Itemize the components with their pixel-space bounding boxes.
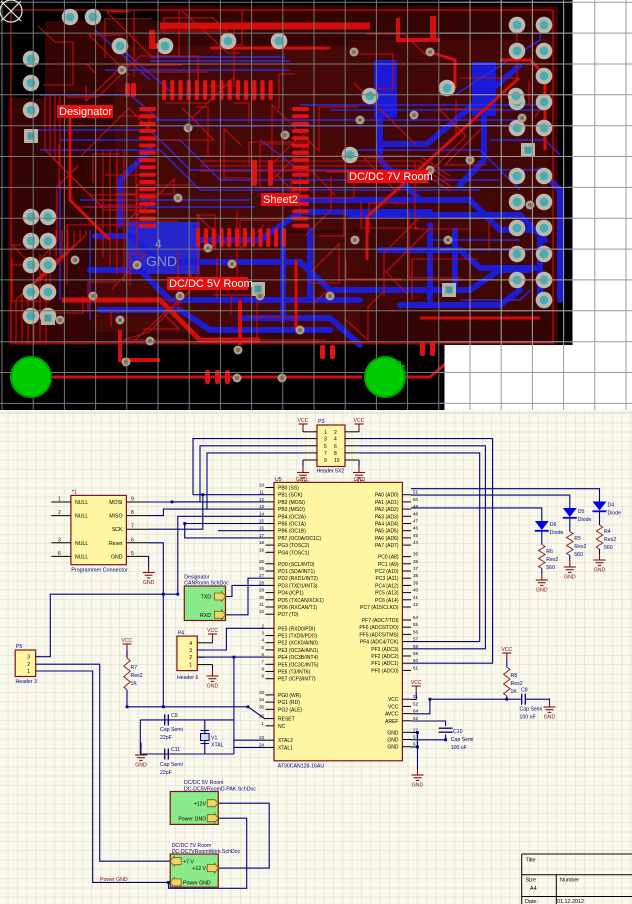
svg-text:Date:: Date: [525,899,538,904]
svg-text:PF7 (ADC7/TDI): PF7 (ADC7/TDI) [362,618,399,624]
svg-text:39: 39 [413,580,418,585]
svg-text:1K: 1K [511,689,518,695]
svg-text:49: 49 [413,504,418,509]
square pads [24,129,535,325]
svg-text:35: 35 [259,704,264,709]
wire net XTAL2 to pin [234,739,266,741]
wire net AREF to C10 [411,721,446,726]
svg-text:PB2 (MOSI): PB2 (MOSI) [278,500,305,506]
room region bottom-right [360,228,548,312]
svg-text:3: 3 [324,437,327,443]
ground [353,467,365,478]
wire net SCK header join [193,494,203,496]
svg-text:6: 6 [131,537,134,543]
room region top-left [115,46,353,230]
wire net GND63 [411,746,418,748]
svg-text:DC/DC 5V Room: DC/DC 5V Room [169,278,253,290]
svg-text:U5: U5 [275,477,282,483]
svg-text:PF3 (ADC3): PF3 (ADC3) [371,647,399,653]
resistor R5 [567,532,573,556]
svg-text:PD6 (RXCAN/T1): PD6 (RXCAN/T1) [278,605,318,611]
svg-text:NC: NC [278,724,286,730]
svg-text:XTAL1: XTAL1 [278,745,293,751]
svg-text:8: 8 [262,667,265,672]
junction dots [162,593,165,596]
svg-text:XTAL: XTAL [211,743,224,749]
footprint pads cluster small [205,370,210,384]
svg-text:PD4 (ICP1): PD4 (ICP1) [278,591,304,597]
ground [135,749,147,760]
svg-text:1: 1 [324,430,327,436]
svg-text:GND: GND [135,763,147,769]
svg-text:Power GND: Power GND [178,816,206,822]
svg-text:3: 3 [189,648,192,654]
svg-text:1: 1 [189,663,192,669]
svg-text:GND: GND [354,477,366,483]
footprint QFP2 pad column [292,107,309,111]
svg-text:AT90CAN128-16AU: AT90CAN128-16AU [278,763,325,769]
pcb board copper area [8,6,558,345]
svg-text:Cap Semi: Cap Semi [520,707,543,713]
svg-text:MOSI: MOSI [109,500,122,506]
wire net PowerGND from header3 [38,671,171,882]
pcb label Designator [57,105,113,118]
svg-text:Header 5X2: Header 5X2 [317,469,345,475]
svg-text:11: 11 [259,490,264,495]
svg-text:C8: C8 [521,688,528,694]
svg-text:RESET: RESET [278,717,295,723]
svg-text:Programmer Connector: Programmer Connector [71,568,128,574]
diode D6 [535,521,549,531]
svg-text:2: 2 [262,623,265,628]
svg-text:33: 33 [259,690,264,695]
svg-text:64: 64 [413,709,418,714]
wire net D5 to R5 [569,518,571,532]
svg-text:46: 46 [413,526,418,531]
wire net PowerGND loop [169,818,247,888]
svg-text:PD2 (RXD1/INT2): PD2 (RXD1/INT2) [278,576,318,582]
ground [544,701,556,712]
svg-text:Res2: Res2 [511,681,523,687]
svg-text:DC/DC 7V Room: DC/DC 7V Room [349,171,433,183]
svg-text:C10: C10 [453,729,463,735]
svg-text:+7 V: +7 V [183,859,194,865]
wire net header pin8 to PF4 [359,453,480,642]
black margin top-left [0,0,45,98]
wire net AVCC to R8/C8 [411,699,521,714]
svg-text:PD5 (TXCAN/XCK1): PD5 (TXCAN/XCK1) [278,598,324,604]
svg-text:PE6 (T3/INT6): PE6 (T3/INT6) [278,670,311,676]
svg-text:XTAL2: XTAL2 [278,738,293,744]
wire gnd right stub [358,460,360,467]
svg-text:6: 6 [334,444,337,450]
svg-text:RXD: RXD [200,613,211,619]
svg-text:15: 15 [259,519,264,524]
svg-text:61: 61 [413,665,418,670]
svg-text:Cap Semi: Cap Semi [451,737,474,743]
connector Programmer Connector [71,495,127,564]
crystal V1 XTAL [201,731,210,744]
svg-text:4: 4 [189,641,192,647]
svg-text:R5: R5 [574,536,581,542]
svg-text:9: 9 [131,497,134,503]
wire net XTAL right vertical [233,657,235,754]
svg-text:NULL: NULL [75,554,88,560]
wire blue thick trace 8 [280,230,286,320]
svg-text:GND: GND [387,730,399,736]
svg-text:9: 9 [324,458,327,464]
svg-text:28: 28 [259,580,264,585]
svg-text:3: 3 [58,537,61,543]
svg-text:GND: GND [536,588,548,594]
schematic sheet background [0,410,632,904]
svg-text:56: 56 [413,629,418,634]
svg-text:GND: GND [544,715,556,721]
connector Header 4 [177,636,197,671]
connector Header 3 [15,650,36,677]
svg-text:PF5 (ADC5/TMS): PF5 (ADC5/TMS) [359,632,399,638]
svg-text:2: 2 [58,510,61,516]
svg-text:P5: P5 [16,644,22,650]
wire net PA0 to D4 [411,489,600,502]
wire net PA1 to D5 [411,495,570,508]
svg-text:29: 29 [259,588,264,593]
svg-text:16: 16 [259,526,264,531]
svg-text:C9: C9 [171,713,178,719]
footprint QFP top pad row [125,80,435,384]
svg-text:AREF: AREF [385,719,398,725]
svg-text:2: 2 [334,430,337,436]
svg-text:560: 560 [546,565,555,571]
wire blue thick trace 2 [95,236,420,290]
svg-text:14: 14 [259,511,264,516]
svg-text:12: 12 [259,497,264,502]
wire blue thick trace 17 [240,318,360,345]
wire net D4 to R4 [599,512,601,526]
svg-text:18: 18 [259,540,264,545]
title block [522,854,632,904]
svg-text:PB0 (SS): PB0 (SS) [278,486,299,492]
svg-text:Header 3: Header 3 [16,679,37,685]
wire net R4 to gnd [599,549,601,554]
pcb background [0,0,632,410]
wire blue thick trace 5 [300,200,540,300]
svg-text:PA5 (AD5): PA5 (AD5) [375,529,399,535]
power port VCC [412,686,421,692]
svg-text:PE4 (OC3B/INT4): PE4 (OC3B/INT4) [278,655,318,661]
svg-text:PD0 (SCL/INT0): PD0 (SCL/INT0) [278,562,315,568]
svg-text:PC1 (A9): PC1 (A9) [378,562,399,568]
svg-text:DC/DC 5V Room: DC/DC 5V Room [184,780,224,786]
sheet entry Power GND 7V [170,877,181,887]
svg-text:5: 5 [131,551,134,557]
svg-text:41: 41 [413,595,418,600]
power port VCC [123,644,132,650]
svg-text:5: 5 [262,645,265,650]
wire vcc left stub [302,430,304,432]
svg-text:13: 13 [259,504,264,509]
svg-text:PF6 (ADC6/TDO): PF6 (ADC6/TDO) [359,625,399,631]
svg-text:58: 58 [413,644,418,649]
wire net header4 pin3 to PE0 [197,628,265,650]
svg-text:25: 25 [259,559,264,564]
resistor R6 [539,545,545,569]
svg-text:50: 50 [413,497,418,502]
svg-text:SCK: SCK [112,527,123,533]
svg-text:GND: GND [594,568,606,574]
svg-text:8: 8 [334,451,337,457]
svg-text:P4: P4 [178,631,184,637]
ground [207,670,219,681]
wire net SCK [149,495,266,530]
green origin marker [395,361,405,371]
svg-text:GND: GND [387,745,399,751]
footprint QFP left pad column [139,107,156,111]
svg-text:7: 7 [324,451,327,457]
wire blue thick trace 7 [100,310,330,330]
svg-text:Res2: Res2 [546,557,558,563]
svg-text:59: 59 [413,651,418,656]
pcb label DC/DC 5V Room [167,277,248,290]
svg-text:GND: GND [387,738,399,744]
svg-text:4: 4 [334,437,337,443]
wire gnd stub header4 [212,665,214,670]
wire blue thick trace 16 [452,230,458,285]
svg-text:V1: V1 [211,736,217,742]
svg-text:PA6 (AD6): PA6 (AD6) [375,536,399,542]
wire net R6 to gnd [541,569,543,575]
svg-text:PG4 (TOSC1): PG4 (TOSC1) [278,550,310,556]
svg-text:6: 6 [262,652,265,657]
svg-text:560: 560 [604,545,613,551]
svg-text:37: 37 [413,566,418,571]
wire blue thick trace 12 [350,215,545,240]
svg-text:PB5 (OC1A): PB5 (OC1A) [278,522,306,528]
blue polygon plane GND [127,222,200,274]
sheet entry +7V [170,856,181,866]
svg-text:2: 2 [27,662,30,668]
svg-text:PA7 (AD7): PA7 (AD7) [375,543,399,549]
wire red signal traces [12,10,552,345]
svg-text:PG1 (RD): PG1 (RD) [278,700,300,706]
svg-text:PA4 (AD4): PA4 (AD4) [375,522,399,528]
pcb label DC/DC 7V Room [347,170,428,183]
svg-text:TXD: TXD [201,595,212,601]
svg-text:40: 40 [413,588,418,593]
svg-text:PC7 (A15/CLKO): PC7 (A15/CLKO) [360,605,399,611]
svg-text:52: 52 [413,701,418,706]
wire blue thick trace 15 [427,225,433,300]
svg-text:7: 7 [262,659,265,664]
svg-text:21: 21 [413,694,418,699]
svg-text:27: 27 [259,573,264,578]
svg-text:MISO: MISO [109,514,122,520]
svg-text:Res2: Res2 [574,544,586,550]
wire blue thick trace 13 [380,250,540,268]
svg-text:PG2 (ALE): PG2 (ALE) [278,707,303,713]
svg-text:PA3 (AD3): PA3 (AD3) [375,514,399,520]
svg-text:PF4 (ADC4/TCK): PF4 (ADC4/TCK) [360,640,399,646]
svg-text:55: 55 [413,622,418,627]
svg-text:60: 60 [413,658,418,663]
svg-text:VCC: VCC [411,680,422,686]
svg-text:20: 20 [259,714,264,719]
svg-text:54: 54 [413,615,418,620]
svg-text:5: 5 [324,444,327,450]
wire blue thick trace 18 [120,150,150,225]
svg-text:3: 3 [27,655,30,661]
svg-text:1: 1 [58,497,61,503]
svg-text:PF2 (ADC2): PF2 (ADC2) [371,654,399,660]
svg-text:PB3 (MISO): PB3 (MISO) [278,507,305,513]
wire red thick traces [31,16,545,377]
wire blue thick trace 3 [90,270,360,300]
grid over white [440,0,632,410]
svg-text:PC3 (A11): PC3 (A11) [376,576,399,582]
wire net header pin3 [193,439,303,495]
svg-text:PA2 (AD2): PA2 (AD2) [375,507,399,513]
svg-text:VCC: VCC [354,418,365,424]
svg-text:D5: D5 [578,509,585,515]
wire net RESET horizontal [127,690,248,707]
svg-text:GND: GND [564,575,576,581]
footprint bottom pad row [196,228,200,247]
svg-text:22pF: 22pF [160,770,172,776]
wire blue thick trace 9 [307,230,313,300]
svg-text:Cap Semi: Cap Semi [160,727,183,733]
svg-text:Diode: Diode [578,517,592,523]
svg-text:PE2 (XCK0/AIN0): PE2 (XCK0/AIN0) [278,641,318,647]
wire net PB6 [218,530,266,532]
svg-text:1K: 1K [131,681,138,687]
wire net MOSI to IC [172,501,266,503]
power port VCC [355,424,364,430]
wire net header4 pin2 to PE4 [197,656,265,658]
ground [412,769,424,780]
wire blue thick trace 19 [540,170,560,300]
board outline red [11,10,553,343]
svg-text:22pF: 22pF [160,735,172,741]
svg-text:4: 4 [262,638,265,643]
svg-text:31: 31 [259,602,264,607]
svg-text:Sheet2: Sheet2 [263,194,298,206]
svg-text:D6: D6 [550,522,557,528]
svg-text:+12V: +12V [194,801,207,807]
svg-text:Diode: Diode [608,511,622,517]
svg-text:57: 57 [413,637,418,642]
IC left pins [259,483,324,752]
svg-text:*1: *1 [72,490,77,496]
svg-text:7: 7 [131,524,134,530]
svg-text:3: 3 [262,631,265,636]
ground [594,554,606,565]
wire net PA2 to D6 [411,508,542,521]
wire net XTAL1 to pin [234,746,266,748]
wire net xtal left vertical [139,720,141,754]
svg-text:26: 26 [259,566,264,571]
wire blue thick trace 6 [420,270,530,290]
mounting hole green 2 [365,357,405,397]
svg-text:VCC: VCC [298,418,309,424]
svg-text:GND: GND [207,684,219,690]
svg-text:38: 38 [413,573,418,578]
svg-text:PE3 (OC3A/AIN1): PE3 (OC3A/AIN1) [278,648,319,654]
svg-text:A4: A4 [530,886,537,892]
wire blue thick trace 10 [380,118,420,200]
svg-text:PD1 (SDA/INT1): PD1 (SDA/INT1) [278,569,315,575]
wire net RESET vertical [149,543,163,707]
svg-text:01.12.2012: 01.12.2012 [557,899,584,904]
capacitor C8 [522,694,526,705]
wire gnd stub [148,556,150,566]
wire net +12V loop [218,803,269,868]
svg-text:34: 34 [259,697,264,702]
svg-text:17: 17 [259,533,264,538]
svg-text:VCC: VCC [207,628,218,634]
wire net R8 bottom [506,696,508,699]
through-hole pads [23,9,553,325]
wire net C10 to GND53 [411,735,446,740]
svg-text:4: 4 [155,237,162,251]
svg-text:PC2 (A10): PC2 (A10) [375,569,399,575]
sheet entry RXD [215,610,226,620]
svg-text:100 uF: 100 uF [451,745,467,751]
svg-text:32: 32 [259,609,264,614]
svg-text:R6: R6 [546,549,553,555]
svg-text:47: 47 [413,519,418,524]
white sheet area bottom-right [445,345,632,410]
wire net RESET diagonal [248,707,266,719]
svg-text:PC6 (A14): PC6 (A14) [375,598,399,604]
svg-text:PB7 (OC0A/OC1C): PB7 (OC0A/OC1C) [278,536,321,542]
op-amp U5 AT90CAN128-16AU main IC [274,482,402,760]
svg-text:2: 2 [189,655,192,661]
sheet entry Power GND [207,813,218,823]
pcb label Sheet2 [261,193,299,206]
ground [297,467,309,478]
svg-text:PE5 (OC3C/INT5): PE5 (OC3C/INT5) [278,662,319,668]
svg-text:PB6 (OC1B): PB6 (OC1B) [278,529,306,535]
svg-text:10: 10 [334,458,340,464]
ground [564,561,576,572]
svg-text:PG0 (WR): PG0 (WR) [278,693,301,699]
wire vcc right stub [358,430,360,432]
wire net header pin5 [172,446,303,502]
svg-text:51: 51 [413,490,418,495]
svg-text:24: 24 [259,742,264,747]
svg-text:PF0 (ADC0): PF0 (ADC0) [371,668,399,674]
svg-text:Power GND: Power GND [100,877,128,883]
sheet entry TXD [215,592,226,602]
wire net MOSI [149,501,266,503]
svg-text:Res2: Res2 [131,673,143,679]
svg-text:6: 6 [58,551,61,557]
capacitor C9 [165,714,169,725]
room region top-right [353,40,548,228]
blue plane bar 2 [472,62,496,116]
resistor R4 [596,525,602,549]
svg-text:+12 V: +12 V [192,866,206,872]
wire net PB5 [185,523,266,525]
power port VCC [502,653,511,659]
svg-text:PC4 (A12): PC4 (A12) [375,583,399,589]
svg-text:GND: GND [146,253,177,269]
svg-text:42: 42 [413,602,418,607]
svg-text:Res2: Res2 [604,537,616,543]
wire blue signal traces [30,20,560,320]
wire net PB7 [185,524,266,538]
wire net +7V from header3 [38,664,171,861]
